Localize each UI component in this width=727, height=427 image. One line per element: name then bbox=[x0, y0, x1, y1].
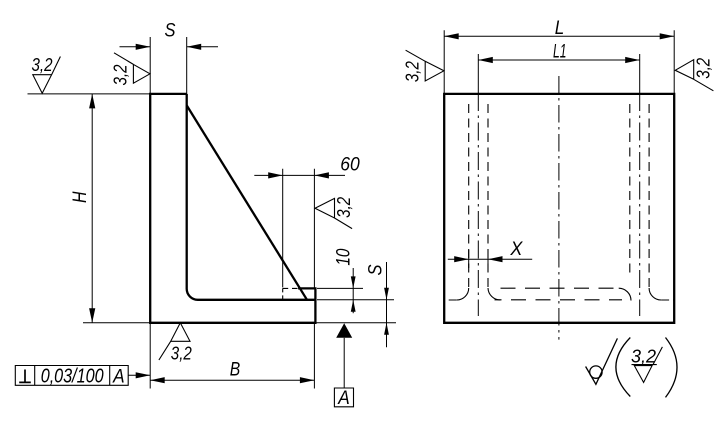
dimension L: left arrowhead bbox=[444, 33, 459, 39]
surface symbol right view left (rotated apex right) bbox=[406, 50, 444, 81]
surface symbol right view right (rotated apex left) bbox=[675, 60, 713, 91]
dimension 10: extension line y300 bbox=[317, 299, 394, 301]
svg-text:H: H bbox=[70, 191, 91, 203]
dimension L1: dimension line bbox=[478, 59, 639, 61]
right view: hidden line to left edge bbox=[444, 299, 457, 301]
surface symbol at 60 extension (rotated, apex left) bbox=[315, 198, 352, 228]
right view: left rib inner bottom arc bbox=[488, 288, 500, 300]
right view: left rib outer bottom arc bbox=[457, 288, 469, 300]
right view: right rib hidden line outer bbox=[648, 104, 650, 288]
general roughness note: tail slash bbox=[653, 347, 662, 365]
dimension S top: right arrowhead bbox=[187, 44, 202, 50]
dimension 60: right arrowhead bbox=[314, 172, 329, 178]
dimension S top: left arrowhead bbox=[136, 44, 151, 50]
general roughness note: close parenthesis bbox=[666, 338, 678, 398]
dimension B: right arrowhead bbox=[300, 377, 315, 383]
dimension 10: lower arrowhead bbox=[351, 300, 356, 312]
left view: top surface extension line bbox=[28, 93, 151, 95]
dimension X: extension overlays bbox=[469, 250, 488, 268]
right view: hidden row2 bbox=[495, 299, 623, 301]
general roughness note: checkmark bbox=[586, 338, 618, 384]
dimension L1: extension lines bbox=[478, 54, 639, 94]
svg-text:3,2: 3,2 bbox=[171, 343, 192, 363]
dimension S top: dimension lines bbox=[120, 46, 219, 48]
dimension X: dimension line bbox=[448, 258, 532, 260]
datum A triangle bbox=[336, 323, 352, 338]
dimension S right: lower arrowhead bbox=[384, 323, 389, 335]
datum A box bbox=[334, 388, 353, 407]
right view: outline rectangle bbox=[444, 94, 674, 323]
dimension 60: extension lines bbox=[283, 169, 315, 288]
surface symbol bottom 3,2 bbox=[159, 323, 190, 360]
right view: hidden line to right edge bbox=[661, 299, 674, 301]
svg-text:10: 10 bbox=[334, 248, 355, 265]
general roughness note: bar under value bbox=[632, 364, 657, 366]
general roughness note: open parenthesis bbox=[616, 338, 630, 397]
right view: left rib hidden line inner bbox=[487, 104, 489, 288]
dimension S right: dimension line bbox=[386, 262, 388, 347]
svg-text:L1: L1 bbox=[553, 42, 567, 63]
dimension X: left arrowhead bbox=[454, 256, 469, 262]
left view: hidden step edge horizontal bbox=[283, 287, 298, 289]
right view: left rib hidden line outer bbox=[468, 104, 470, 288]
svg-text:A: A bbox=[112, 367, 124, 388]
left view: inner edge with fillet bbox=[187, 94, 316, 300]
dimension X: right arrowhead bbox=[488, 256, 503, 262]
svg-text:3,2: 3,2 bbox=[32, 55, 53, 75]
dimension L1: right arrowhead bbox=[625, 57, 640, 63]
left view: bottom surface extension left bbox=[83, 322, 150, 324]
left view: gusset hypotenuse bbox=[187, 105, 307, 299]
right view: left rib centerline bbox=[477, 93, 479, 316]
datum A stem bbox=[343, 338, 345, 388]
svg-text:3,2: 3,2 bbox=[631, 347, 656, 367]
dimension 60: dimension line bbox=[254, 174, 345, 176]
svg-text:S: S bbox=[165, 21, 176, 42]
right view: middle centerline bbox=[558, 76, 560, 340]
dimension S top: extension lines bbox=[150, 37, 187, 94]
svg-text:3,2: 3,2 bbox=[334, 197, 354, 218]
dimension S right: upper arrowhead bbox=[384, 288, 389, 300]
dimension L1: left arrowhead bbox=[478, 57, 493, 63]
svg-text:3,2: 3,2 bbox=[694, 58, 714, 79]
dimension H: bottom arrowhead bbox=[89, 308, 95, 323]
general roughness note: circle bbox=[590, 366, 602, 378]
dimension 10: dimension line bbox=[352, 268, 354, 313]
right view: hidden row1 bbox=[501, 287, 619, 289]
svg-text:60: 60 bbox=[340, 155, 360, 176]
right view: right rib centerline bbox=[639, 93, 641, 316]
perpendicularity symbol bbox=[19, 370, 31, 383]
svg-text:B: B bbox=[230, 360, 241, 381]
right view: right rib hidden line inner bbox=[629, 104, 631, 276]
svg-text:A: A bbox=[337, 388, 349, 409]
dimension H: top arrowhead bbox=[89, 94, 95, 109]
dimension 60: left arrowhead bbox=[268, 172, 283, 178]
dimension 10: extension line y288 bbox=[317, 287, 363, 289]
perpendicularity frame box bbox=[15, 366, 128, 386]
right view: right rib outer bottom arc bbox=[649, 288, 661, 300]
general roughness note: triangle bbox=[634, 366, 652, 383]
left view: part outline bbox=[150, 94, 315, 323]
perpendicularity frame leader line bbox=[128, 374, 150, 376]
perpendicularity leader arrowhead bbox=[136, 372, 151, 378]
svg-text:L: L bbox=[555, 18, 565, 39]
left view: bottom surface extension right bbox=[315, 322, 396, 324]
dimension H: dimension line bbox=[91, 94, 93, 323]
dimension B: dimension line bbox=[150, 379, 314, 381]
svg-text:0,03/100: 0,03/100 bbox=[41, 366, 104, 388]
dimension B: left arrowhead bbox=[150, 377, 165, 383]
svg-text:X: X bbox=[509, 239, 523, 260]
left view: hidden step edge vertical bbox=[282, 288, 284, 299]
dimension B: extension lines bbox=[150, 324, 314, 389]
dimension L: extension lines bbox=[444, 30, 674, 94]
dimension L: right arrowhead bbox=[660, 33, 675, 39]
svg-text:S: S bbox=[366, 264, 387, 275]
surface symbol top-left 3,2 bbox=[33, 57, 61, 94]
surface symbol left-leg (rotated) bbox=[114, 53, 150, 83]
right view: row1 right end arc bbox=[619, 288, 631, 300]
dimension 10: upper arrowhead bbox=[351, 276, 356, 288]
svg-text:3,2: 3,2 bbox=[110, 65, 130, 86]
svg-text:3,2: 3,2 bbox=[403, 61, 423, 82]
dimension L: dimension line bbox=[444, 35, 674, 37]
